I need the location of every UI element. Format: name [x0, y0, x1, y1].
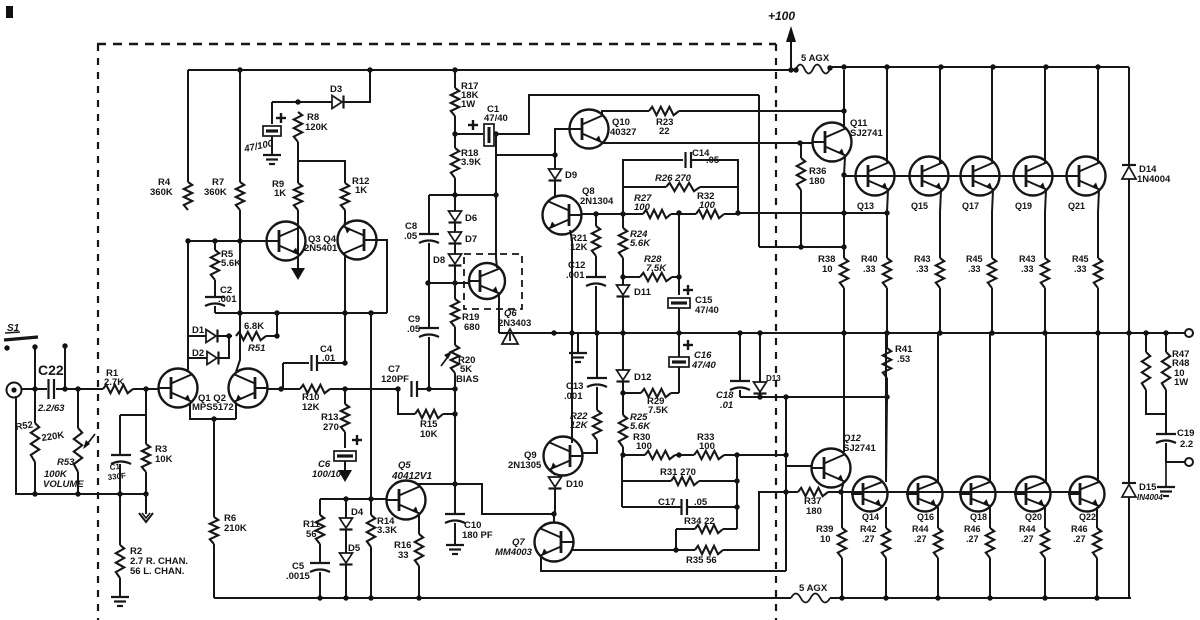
node Q1 base dot: [143, 386, 148, 391]
label Q1 Q2 MPS5172: [192, 393, 234, 413]
wire R40 emitter column: [887, 190, 888, 258]
svg-text:.27: .27: [966, 534, 979, 544]
svg-text:2.7K: 2.7K: [104, 377, 124, 388]
diode D6: [449, 211, 478, 224]
resistor R26: [655, 173, 700, 191]
wire R8 R9 link: [297, 142, 299, 183]
svg-text:180: 180: [809, 176, 825, 187]
svg-text:100: 100: [699, 200, 716, 211]
svg-text:R31 270: R31 270: [660, 467, 696, 478]
wire R46 emitter column: [1096, 507, 1098, 528]
R18 top: [454, 134, 456, 148]
bias pot R20: [441, 345, 479, 385]
bottom bus left: [214, 597, 791, 599]
node 429 389: [426, 386, 431, 391]
wire R45 to bus: [1097, 288, 1099, 333]
svg-text:D13: D13: [766, 374, 781, 383]
capacitor C18: [716, 381, 750, 411]
svg-text:12K: 12K: [302, 402, 320, 413]
transistor Q9: [544, 437, 583, 476]
diode D1: [192, 325, 218, 343]
R11 to C5: [319, 544, 321, 563]
ground arrow stem: [145, 494, 147, 514]
resistor R18: [451, 148, 481, 178]
wire D3 line: [272, 101, 332, 103]
R13 top: [344, 389, 346, 404]
wire R44 collector column: [937, 334, 939, 482]
resistor R35: [686, 546, 723, 566]
svg-text:1N4004: 1N4004: [1137, 174, 1171, 185]
bottom bus dots: [317, 595, 1099, 600]
ground symbol below 47/100 cap: [263, 155, 281, 164]
R23 to Q11: [679, 110, 844, 112]
capacitor C3 330pF: [107, 455, 131, 482]
transistor Q2: [229, 369, 268, 408]
resistor R13: [321, 404, 349, 433]
wire C3 branch: [120, 414, 146, 416]
C9 bottom: [428, 337, 430, 389]
diode D10: [549, 477, 584, 490]
svg-text:47/100: 47/100: [242, 138, 274, 155]
wire R6 bottom: [213, 544, 215, 598]
resistor R9: [272, 179, 302, 210]
svg-text:33: 33: [398, 550, 409, 561]
wire R44 to bottom bus: [937, 558, 939, 598]
svg-text:.05: .05: [404, 231, 418, 242]
wire R8-R12 horiz: [298, 161, 345, 183]
svg-text:Q17: Q17: [962, 201, 979, 211]
C9 top: [428, 283, 430, 328]
svg-text:.33: .33: [1074, 264, 1087, 274]
resistor R25: [619, 412, 651, 447]
D8 to base line: [454, 266, 456, 283]
wire R12 to Q4 emitter: [344, 210, 345, 227]
R21 top: [595, 214, 597, 226]
svg-text:.001: .001: [564, 391, 583, 402]
svg-text:180 PF: 180 PF: [462, 530, 493, 541]
resistor R16: [394, 534, 423, 566]
R22 to Q9 base: [582, 440, 597, 453]
R29 left: [623, 392, 641, 394]
svg-text:Q16: Q16: [917, 512, 934, 522]
C8 top: [428, 195, 430, 234]
R21 to C12: [595, 256, 597, 277]
node 398 389: [395, 386, 400, 391]
node 345 389: [342, 386, 347, 391]
wire cap to ground: [271, 136, 273, 155]
svg-text:R44: R44: [912, 524, 929, 534]
svg-text:D4: D4: [351, 507, 364, 518]
node 455 283: [452, 280, 457, 285]
svg-text:7.5K: 7.5K: [648, 405, 668, 416]
svg-text:100: 100: [699, 441, 715, 452]
output bus: [499, 332, 1185, 334]
Q12 base tee: [786, 465, 812, 467]
wire R44 to bottom bus: [1044, 558, 1046, 598]
496 column: [495, 134, 497, 258]
svg-text:2.2/63: 2.2/63: [37, 403, 65, 414]
diode D15: [1122, 482, 1163, 502]
svg-text:330F: 330F: [107, 471, 126, 482]
resistor R34: [684, 516, 723, 533]
resistor R19: [451, 299, 480, 333]
wire R46 to bottom bus: [989, 558, 991, 598]
svg-text:100/10: 100/10: [312, 469, 342, 480]
transistor Q10: [570, 110, 609, 149]
output terminal bottom: [1185, 458, 1193, 466]
node dots 455: [452, 386, 457, 486]
R41 top: [886, 333, 888, 348]
resistor R23: [649, 107, 679, 137]
C8 to mid: [428, 243, 430, 283]
wire R7 top: [239, 70, 241, 182]
corner mark: [6, 6, 13, 18]
svg-text:D15: D15: [1139, 482, 1157, 493]
C15 bottom: [678, 308, 680, 333]
wire R7 to base line: [239, 210, 241, 241]
svg-text:6.8K: 6.8K: [244, 321, 264, 332]
Q9 emitter to D10: [550, 469, 555, 475]
ground stub on output: [569, 334, 587, 362]
svg-text:.27: .27: [1073, 534, 1086, 544]
wire R42 emitter column: [885, 507, 887, 528]
svg-text:220K: 220K: [41, 430, 65, 444]
wire R3 bottom: [145, 472, 147, 494]
Q5 base line: [320, 498, 387, 500]
resistor R46: [964, 524, 994, 558]
wire Q1 collector: [187, 241, 189, 370]
svg-text:D9: D9: [565, 170, 577, 181]
dashed boundary top: [97, 43, 776, 46]
wire Q4 base right: [370, 240, 387, 313]
C5 bottom: [319, 572, 321, 598]
plus C15: [683, 285, 693, 295]
svg-text:SJ2741: SJ2741: [850, 128, 883, 139]
R19 top: [454, 283, 456, 299]
R32 right: [724, 213, 738, 215]
svg-text:2N1305: 2N1305: [508, 460, 542, 471]
transistor Q20: [1014, 477, 1051, 523]
svg-text:R40: R40: [861, 254, 878, 264]
svg-text:10: 10: [820, 534, 831, 545]
svg-text:680: 680: [464, 322, 480, 333]
y313 wire: [215, 312, 387, 314]
C18 bottom: [739, 390, 741, 397]
679 col top: [678, 213, 680, 277]
C17 right: [687, 506, 737, 508]
wire R45 collector column: [1097, 67, 1099, 163]
wire Q4 collector down: [344, 254, 346, 363]
R35 left: [676, 549, 695, 551]
svg-text:56 L. CHAN.: 56 L. CHAN.: [130, 566, 184, 577]
wire 6.8K right up: [266, 314, 277, 336]
D6 top stub: [454, 195, 456, 211]
212 dots: [841, 210, 889, 215]
R16 bottom: [418, 566, 420, 598]
wire R44 emitter column: [1044, 507, 1046, 528]
dashed box around Q6: [464, 254, 522, 309]
786 dots: [783, 452, 788, 494]
bottom bus right: [830, 597, 1131, 599]
switch S1: [4, 323, 68, 351]
node emitter junction: [211, 416, 216, 421]
capacitor C5: [286, 561, 330, 582]
node 623 393: [620, 390, 625, 395]
dashed boundary left: [97, 44, 99, 620]
bus to D12: [622, 333, 624, 370]
diode D8: [433, 254, 462, 266]
Q10 emitter line: [602, 142, 813, 144]
Q12 emitter: [841, 481, 844, 492]
main mid line: [268, 388, 300, 390]
resistor R38: [818, 254, 848, 288]
diode D5: [340, 543, 361, 565]
transistor Q22: [1068, 477, 1105, 523]
node dots 737: [734, 478, 739, 509]
R14 bottom: [370, 547, 372, 598]
svg-text:D3: D3: [330, 84, 342, 95]
R34 drop: [675, 529, 677, 550]
svg-text:3.3K: 3.3K: [377, 525, 397, 536]
Q14 collector column: [886, 397, 887, 480]
svg-text:210K: 210K: [224, 523, 247, 534]
svg-text:D11: D11: [634, 287, 652, 298]
transistor Q8: [543, 196, 582, 235]
Q5 collector: [419, 484, 554, 514]
transistor Q11: [813, 123, 852, 162]
svg-text:+100: +100: [768, 9, 795, 23]
svg-text:Q15: Q15: [911, 201, 928, 211]
resistor R27: [634, 193, 671, 218]
resistor R33: [694, 432, 724, 459]
Q5 emitter: [418, 514, 420, 534]
capacitor C14: [686, 148, 720, 168]
wire R43 to bus: [939, 288, 941, 333]
Q8 base dots: [593, 211, 625, 216]
diode D14: [1122, 164, 1171, 185]
node 841 492: [838, 489, 843, 494]
R17 to C1 line: [454, 116, 456, 134]
resistor R43: [1019, 254, 1049, 288]
resistor R1: [103, 368, 133, 393]
node 676 550: [673, 547, 678, 552]
Q6 emitter: [498, 294, 500, 333]
wire R4 top: [187, 70, 189, 182]
svg-text:40327: 40327: [610, 127, 636, 138]
svg-text:360K: 360K: [150, 187, 173, 198]
input node dots: [32, 386, 80, 391]
label Q8 2N1304: [580, 186, 614, 207]
C13 to R22: [596, 387, 598, 410]
ground return dots: [32, 491, 148, 496]
svg-text:BIAS: BIAS: [456, 374, 479, 385]
svg-text:.33: .33: [916, 264, 929, 274]
C4 top line: [283, 362, 309, 364]
capacitor C7: [381, 364, 417, 397]
wire D2 right up: [219, 336, 229, 358]
wire D2 left stub: [188, 357, 207, 359]
svg-text:Q18: Q18: [970, 512, 987, 522]
wire Q2 emitter: [235, 403, 237, 419]
svg-text:.05: .05: [407, 324, 421, 335]
D6-D7: [454, 223, 456, 232]
node 554 514: [551, 511, 556, 516]
input jack J1: [7, 383, 22, 398]
svg-text:D8: D8: [433, 255, 445, 266]
155 to D9: [554, 155, 556, 169]
svg-text:100: 100: [634, 202, 651, 213]
neg rail arrow below Q3: [291, 268, 305, 280]
wire R42 to bottom bus: [885, 558, 887, 598]
R47 R48 join: [1146, 390, 1166, 414]
wire R43 emitter column: [940, 190, 941, 258]
R24 top: [622, 214, 624, 228]
wire Q1 emitter: [190, 403, 236, 419]
wire R53 top: [77, 389, 79, 428]
resistor R7: [204, 177, 244, 210]
svg-text:R42: R42: [860, 524, 877, 534]
R31 right: [699, 480, 737, 482]
node 623 277: [620, 274, 625, 279]
transistor Q16: [906, 477, 943, 523]
+100 supply arrow: [768, 9, 796, 70]
Q6 collector: [496, 258, 497, 268]
diode D7: [449, 232, 478, 245]
Q8 emitter column: [570, 230, 572, 443]
R34 left: [676, 528, 695, 530]
svg-text:Q22: Q22: [1079, 512, 1096, 522]
622 sub rail: [621, 455, 623, 507]
output bus dots: [551, 330, 1168, 335]
capacitor C4: [312, 344, 336, 371]
wire D1 to 6.8K: [218, 335, 232, 337]
resistor R52: [15, 420, 65, 462]
wire R43 emitter column: [1045, 190, 1046, 258]
diode D3: [330, 84, 344, 109]
R37 left: [786, 491, 798, 493]
C17 left: [622, 506, 681, 508]
label Q10 40327: [610, 117, 636, 138]
svg-text:1W: 1W: [1174, 377, 1188, 388]
svg-text:R46: R46: [964, 524, 981, 534]
Q11 emitter column: [844, 157, 845, 258]
resistor R15: [415, 410, 443, 440]
svg-text:Q14: Q14: [862, 512, 879, 522]
C14 left rail: [623, 160, 683, 214]
Q6 emitter to bus: [498, 294, 500, 333]
wire R43 to bus: [1044, 288, 1046, 333]
svg-text:D5: D5: [348, 543, 361, 554]
capacitor C16 electrolytic: [669, 350, 716, 371]
transistor Q12: [812, 449, 851, 488]
R26 right: [700, 186, 738, 188]
transistor Q17: [961, 157, 1000, 212]
wire C3 top: [119, 415, 121, 455]
svg-text:1W: 1W: [461, 99, 475, 110]
R26 line: [623, 186, 666, 188]
resistor R11: [303, 515, 324, 544]
wire S1 contact2 down: [64, 346, 66, 389]
D5 bottom: [345, 565, 347, 598]
resistor R41: [883, 344, 913, 378]
svg-text:180: 180: [806, 506, 822, 517]
input ground return wire: [16, 396, 146, 494]
wire R52 bottom: [34, 462, 36, 494]
svg-text:5 AGX: 5 AGX: [801, 53, 830, 64]
node 737 455: [734, 452, 739, 457]
resistor R28: [640, 254, 672, 281]
output terminal top: [1185, 329, 1193, 337]
wire C22 to R1: [56, 388, 103, 390]
C16 to R29: [678, 367, 680, 393]
R11 top: [319, 499, 321, 515]
496 to 155 line: [496, 154, 555, 156]
label Q5 40412V1: [391, 460, 432, 482]
capacitor C8: [404, 221, 439, 243]
wire R7 col to y313: [239, 241, 241, 313]
svg-text:.27: .27: [862, 534, 875, 544]
C18 top: [739, 334, 741, 381]
plus C16: [683, 340, 693, 350]
397 line: [740, 396, 887, 398]
Q8 base line R27 R32: [581, 213, 643, 215]
R14 top: [370, 499, 372, 515]
capacitor C15 electrolytic: [668, 295, 719, 316]
svg-text:2.2: 2.2: [1180, 439, 1193, 450]
R29 right: [671, 392, 679, 394]
resistor R51 6.8K: [236, 321, 266, 354]
diode D11: [617, 285, 652, 298]
wire D3 to bus: [344, 70, 370, 102]
R18 to 195 line: [454, 178, 456, 195]
R34 right: [723, 528, 737, 530]
svg-text:2N3403: 2N3403: [498, 318, 531, 329]
R24 to D11: [622, 258, 624, 285]
svg-text:56: 56: [306, 529, 317, 540]
capacitor C6 electrolytic: [312, 451, 356, 480]
R39 column: [841, 492, 843, 528]
resistor R45: [1072, 254, 1102, 288]
svg-text:SJ2741: SJ2741: [843, 443, 876, 454]
D14 bottom: [1128, 179, 1130, 333]
svg-text:.01: .01: [720, 400, 733, 411]
top supply bus left segment: [188, 69, 793, 71]
svg-text:5.6K: 5.6K: [221, 258, 241, 269]
D4-D5 link: [345, 530, 347, 553]
node C1 line dots: [452, 131, 498, 136]
capacitor C22: [37, 362, 65, 414]
svg-text:10: 10: [822, 264, 833, 275]
wire R44 collector column: [1045, 334, 1047, 482]
svg-text:.33: .33: [1021, 264, 1034, 274]
node 428 283: [425, 280, 430, 285]
svg-text:Q13: Q13: [857, 201, 874, 211]
capacitor C19: [1156, 428, 1194, 450]
transistor Q15: [910, 157, 949, 212]
195 line: [429, 194, 496, 196]
thermal triangle marker: [502, 329, 518, 344]
svg-text:.001: .001: [218, 294, 237, 305]
diode D13: [754, 374, 782, 394]
wire C2 bottom: [214, 306, 216, 313]
node output bus left junction: [569, 330, 574, 335]
R19-R20: [454, 327, 456, 345]
svg-text:C19: C19: [1177, 428, 1194, 439]
D12 to R25: [622, 382, 624, 415]
wire R45 emitter column: [992, 190, 993, 258]
resistor R24: [619, 228, 651, 258]
Q12 collector: [843, 334, 845, 452]
